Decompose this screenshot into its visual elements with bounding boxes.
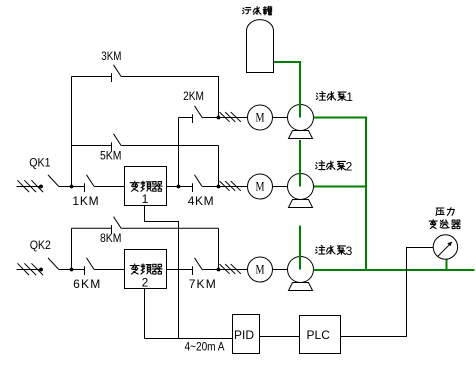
svg-text:M: M [256, 262, 265, 277]
svg-text:1: 1 [346, 90, 353, 104]
svg-text:2: 2 [346, 159, 353, 173]
svg-text:1: 1 [142, 192, 149, 206]
svg-text:4KM: 4KM [188, 194, 214, 208]
svg-text:3KM: 3KM [101, 49, 121, 63]
svg-text:M: M [256, 179, 265, 194]
svg-text:M: M [256, 110, 265, 125]
svg-text:8KM: 8KM [100, 231, 122, 245]
svg-text:QK1: QK1 [29, 156, 50, 170]
svg-text:3: 3 [346, 244, 353, 258]
svg-text:5KM: 5KM [100, 149, 122, 163]
svg-text:PID: PID [234, 328, 254, 342]
svg-text:QK2: QK2 [30, 238, 51, 252]
svg-text:4~20m A: 4~20m A [185, 342, 225, 354]
svg-text:2: 2 [142, 275, 149, 289]
svg-text:6KM: 6KM [73, 277, 100, 291]
svg-text:1KM: 1KM [72, 194, 98, 208]
svg-text:7KM: 7KM [189, 277, 216, 291]
svg-text:PLC: PLC [307, 328, 331, 342]
svg-text:2KM: 2KM [183, 89, 204, 103]
